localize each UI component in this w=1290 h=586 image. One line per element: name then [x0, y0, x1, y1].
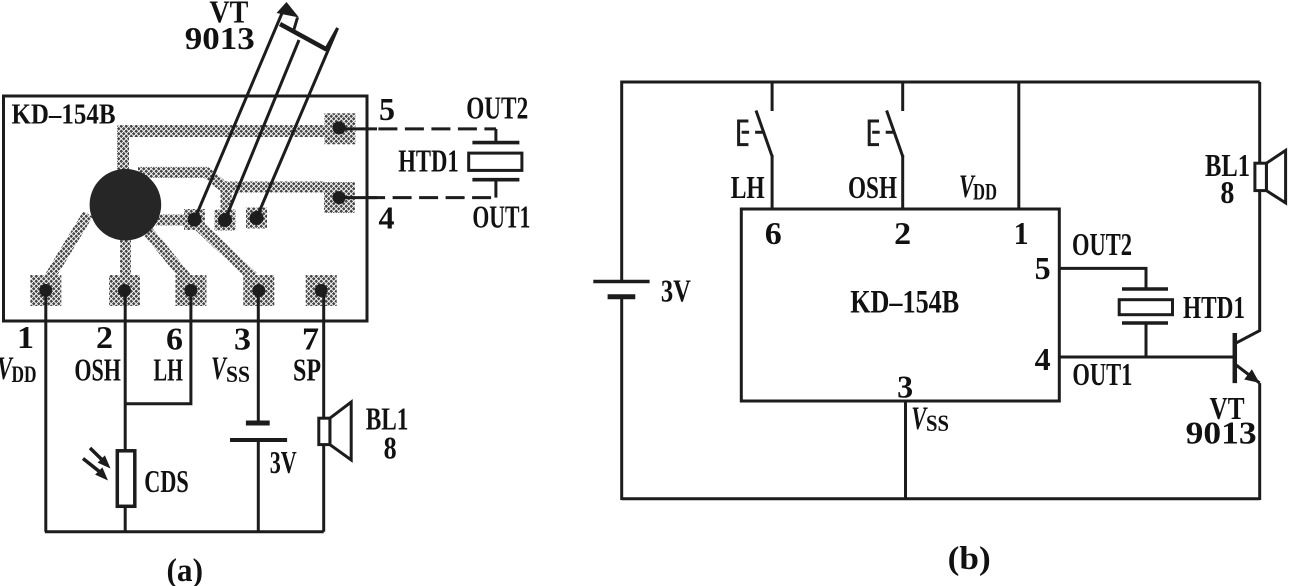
bond dot3	[250, 211, 264, 225]
pad 5	[324, 113, 355, 144]
svg-text:OSH: OSH	[848, 169, 897, 205]
pad dot2	[118, 284, 131, 297]
trace die to pad6	[146, 229, 188, 280]
pad 1	[30, 275, 61, 306]
piezo HTD1 (a) top lead	[494, 129, 497, 141]
svg-text:DD: DD	[973, 180, 997, 205]
svg-text:6: 6	[765, 215, 782, 251]
piezo HTD1 (b) bottom plate	[1122, 321, 1168, 325]
speaker BL1 (b) driver	[1255, 163, 1267, 190]
svg-text:OUT1: OUT1	[472, 198, 530, 234]
switch LH lower wire	[771, 155, 774, 209]
halo dot3	[246, 208, 267, 229]
transistor VT base lead wire	[225, 40, 299, 220]
battery (b) short plate	[608, 294, 636, 299]
svg-text:5: 5	[379, 91, 395, 127]
module outline KD-154B board	[4, 96, 368, 321]
wire pad5 to dashed OUT2	[339, 127, 377, 130]
wire pin6 LH down and left	[125, 291, 191, 404]
speaker BL1 (a) cone	[330, 402, 351, 460]
svg-text:4: 4	[1035, 341, 1051, 377]
pad dot1	[39, 284, 52, 297]
dashed wire OUT1	[366, 196, 496, 199]
left wire lower (b)	[620, 297, 623, 500]
svg-text:CDS: CDS	[144, 463, 188, 499]
transistor VT (b) emitter lead	[1235, 364, 1260, 383]
svg-text:3V: 3V	[661, 272, 691, 308]
svg-text:SP: SP	[293, 352, 321, 388]
photoresistor CDS body	[117, 451, 135, 507]
piezo HTD1 (a) body	[469, 153, 522, 170]
pad dot4	[333, 191, 346, 204]
transistor VT base bar	[280, 24, 327, 50]
bottom rail (b)	[622, 497, 1260, 500]
svg-text:HTD1: HTD1	[398, 143, 459, 179]
pad 6	[175, 275, 206, 306]
halo dot2	[215, 210, 236, 231]
wire pin3 VSS (b)	[904, 401, 907, 499]
svg-text:HTD1: HTD1	[1183, 289, 1245, 325]
switch LH blade	[756, 111, 772, 157]
piezo HTD1 (b) body	[1119, 300, 1172, 315]
svg-text:KD–154B: KD–154B	[850, 284, 959, 320]
piezo HTD1 (a) top plate	[472, 141, 519, 145]
svg-text:DD: DD	[12, 362, 37, 387]
wire pin2 OSH down	[124, 291, 127, 453]
switch OSH actuator bracket	[869, 121, 879, 145]
wire emitter to bottom rail (b)	[1258, 383, 1261, 500]
svg-text:LH: LH	[154, 352, 184, 388]
CDS light arrow 1	[90, 448, 102, 459]
svg-text:4: 4	[379, 200, 395, 236]
svg-text:3: 3	[234, 321, 251, 357]
svg-text:SS: SS	[926, 411, 949, 436]
left wire upper (b)	[620, 81, 623, 282]
svg-text:8: 8	[1220, 174, 1234, 210]
pad dot7	[315, 284, 328, 297]
svg-text:OSH: OSH	[74, 352, 121, 388]
wire top rail to speaker (b)	[1258, 82, 1261, 164]
switch OSH lower wire	[901, 155, 904, 209]
battery (a) long plate	[230, 438, 287, 442]
wire battery to rail (a)	[257, 442, 260, 532]
CDS light arrow 2	[83, 459, 99, 472]
trace die to pad2	[120, 232, 131, 278]
bond dot2	[218, 213, 232, 227]
trace die to pad4 (H2)	[138, 172, 324, 187]
trace to pad5	[123, 131, 330, 170]
svg-text:5: 5	[1035, 250, 1051, 286]
svg-text:1: 1	[1014, 215, 1029, 251]
battery (b) long plate	[593, 280, 649, 284]
svg-text:(a): (a)	[167, 553, 204, 586]
transistor VT emitter kink stroke	[294, 18, 298, 32]
wire pin3 VSS down	[257, 291, 260, 422]
piezo HTD1 (a) bottom plate	[472, 178, 519, 182]
switch OSH upper stub	[901, 82, 904, 111]
bottom rail (a)	[45, 530, 324, 533]
transistor VT (b) collector lead	[1235, 191, 1260, 344]
speaker BL1 (b) cone	[1266, 150, 1285, 203]
halo dot1	[184, 209, 205, 230]
svg-text:9013: 9013	[185, 20, 255, 56]
speaker BL1 (a) driver	[319, 418, 330, 444]
wire pad4 to dashed OUT1	[339, 196, 377, 199]
svg-text:1: 1	[17, 319, 34, 355]
transistor VT (b) emitter arrow	[1244, 369, 1259, 383]
svg-text:KD–154B: KD–154B	[12, 99, 116, 131]
trace dot1 to pad3	[197, 224, 253, 277]
transistor VT collector bend arm	[325, 28, 338, 51]
svg-text:8: 8	[384, 429, 397, 465]
pad dot3	[252, 284, 265, 297]
piezo HTD1 (b) top plate	[1122, 287, 1168, 291]
trace die to dot1	[156, 215, 192, 226]
top rail (b)	[622, 81, 1260, 84]
transistor VT emitter arrow	[277, 2, 300, 18]
pad 2	[109, 275, 140, 306]
switch OSH actuator dashes	[872, 131, 894, 134]
svg-text:SS: SS	[226, 362, 250, 387]
svg-text:3: 3	[897, 369, 913, 405]
wire pin1 VDD down	[44, 291, 47, 532]
pad dot5	[333, 121, 346, 134]
piezo HTD1 (b) bottom lead	[1145, 324, 1148, 357]
dashed wire OUT2	[378, 127, 496, 130]
svg-text:OUT1: OUT1	[1072, 356, 1132, 392]
bond dot1	[188, 213, 202, 227]
switch LH actuator bracket	[739, 121, 749, 145]
pad 3	[243, 275, 274, 306]
transistor VT emitter lead wire	[195, 8, 285, 220]
battery (a) short plate	[246, 421, 270, 426]
svg-text:3V: 3V	[270, 444, 297, 480]
wire pin5 OUT2 (b)	[1059, 268, 1146, 288]
switch OSH blade	[887, 111, 903, 157]
transistor VT collector lead wire	[257, 28, 338, 218]
pad 4	[324, 182, 355, 213]
pad dot6	[184, 284, 197, 297]
svg-text:(b): (b)	[948, 541, 991, 577]
wire CDS to rail	[124, 506, 127, 532]
wire pin7 SP down	[322, 291, 325, 532]
piezo HTD1 (a) bottom lead	[494, 181, 497, 198]
svg-text:OUT2: OUT2	[1072, 226, 1132, 262]
wire pin4 OUT1 (b)	[1059, 356, 1235, 359]
pad 7	[306, 275, 337, 306]
switch LH upper stub	[771, 82, 774, 111]
die (black chip blob)	[90, 169, 162, 241]
wire pin1 VDD (b)	[1017, 82, 1020, 209]
svg-text:9013: 9013	[1186, 415, 1257, 451]
trace die to pad1	[48, 214, 88, 280]
svg-text:2: 2	[96, 319, 113, 355]
switch LH actuator dashes	[742, 131, 764, 134]
svg-text:OUT2: OUT2	[466, 90, 528, 126]
svg-text:LH: LH	[731, 169, 765, 205]
IC box KD-154B (b)	[741, 209, 1059, 401]
transistor VT (b) base bar	[1233, 333, 1238, 383]
svg-text:2: 2	[894, 215, 911, 251]
trace stub H2 to dot2	[221, 187, 232, 214]
